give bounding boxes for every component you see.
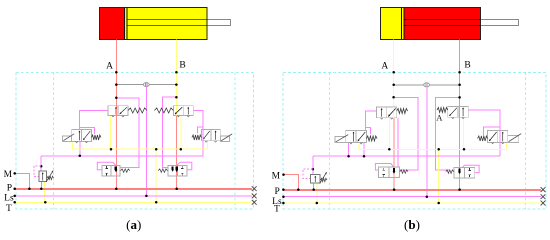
wire RVb dashed pilot loop (303, 169, 313, 178)
wire tank drop below V2a (180, 116, 182, 150)
wire pilot over V4b (499, 131, 501, 143)
junction P x RVa (a) (40, 187, 43, 190)
svg-text:P: P (7, 183, 12, 193)
wire A-line red over V5a (115, 166, 117, 177)
wire pilot B-node to valve V6a (a) (162, 97, 176, 167)
wire B-line through V2a (175, 106, 177, 116)
junction T x RVb drain (b) (316, 202, 319, 205)
manifold inner section divider (b) left (329, 72, 331, 209)
junction Ls x orifice drop (a) (145, 195, 148, 198)
plug P port (a) (252, 186, 257, 191)
junction P x M-jog (b) (297, 188, 300, 191)
cylinder CYL-a outline (100, 8, 208, 40)
wire pilot loop over V6a (177, 162, 192, 170)
node P (a) (13, 187, 16, 190)
wire gray bridge A-B (b) (394, 84, 460, 86)
wire tank header (b) (359, 148, 507, 150)
wire P rail (a) (15, 188, 252, 190)
valve V2a switched-path arrow (175, 107, 182, 114)
cylinder CYL-b piston rod (481, 20, 519, 26)
wire tank drop below V1b (388, 118, 390, 150)
plug Ls port (a) (252, 194, 257, 199)
wire B-line yellow (a) cylinder to valve V2a (175, 39, 177, 115)
node T (a) (13, 201, 16, 204)
valve V2a spring (154, 108, 173, 113)
valve V5b spring (400, 170, 408, 173)
wire V1b right-bottom to V5b top (397, 118, 399, 168)
junction pilot rail x V3b right (b) (363, 155, 366, 158)
node P (b) (282, 188, 285, 191)
valve V5a spring (121, 169, 130, 172)
cylinder CYL-a rod-side yellow fluid (125, 8, 207, 40)
valve V6a spring (158, 169, 167, 172)
valve RVb body (311, 175, 321, 184)
wire pilot branch to V4b spring (b) (483, 127, 500, 136)
manifold inner section divider (a) right (234, 72, 236, 209)
node Ls (b) (282, 195, 285, 198)
valve V5a body (102, 166, 120, 177)
wire tank drop V4b to tank header (506, 142, 508, 149)
wire RVa feed from P rail (40, 182, 42, 189)
wire A-line red over V5b (393, 167, 395, 177)
manifold inner section divider (b) right (525, 72, 527, 209)
wire pilot A-node to valve V5a (a) (116, 98, 139, 168)
wire tank drop V3b to tank header (358, 143, 360, 150)
svg-text:A: A (381, 61, 388, 71)
junction pilot rail x V3b left (b) (347, 155, 350, 158)
wire RVa drain to T rail (43, 182, 45, 203)
wire pilot branch to V3a spring (a) (80, 127, 95, 133)
cylinder CYL-a piston rod (207, 20, 231, 26)
junction A-line x bridge (b) (392, 84, 395, 87)
wire tank drop V3a to tank header (72, 141, 74, 149)
wire tank header (a) (73, 148, 208, 150)
wire pilot RVa up to pilot rail (40, 156, 42, 171)
valve V1a check arrowhead (115, 107, 117, 109)
svg-text:(b): (b) (404, 217, 420, 232)
wire tank drop V4a to tank header (207, 141, 209, 149)
valve V3a body (72, 130, 92, 142)
wire A-line through V1b (393, 107, 395, 118)
junction pilot rail x V3a (a) (79, 155, 82, 158)
wire A-line yellow (b) cylinder to valve V1b (393, 39, 395, 117)
wire pilot over V4a (202, 130, 204, 141)
valve RVb spring (321, 178, 328, 181)
junction B-line x bridge (a) (175, 83, 178, 86)
wire tank header drop to T rail (b) (438, 149, 440, 203)
orifice symbol (b) (424, 83, 430, 87)
junction B-line x boundary (b) (458, 71, 461, 74)
orifice symbol (a) (143, 83, 149, 87)
junction tank header x V2a drop (180, 148, 183, 151)
valve V1a spring (128, 108, 147, 113)
valve V2a body (173, 106, 193, 116)
wire pilot branch to V4a spring (198, 127, 203, 134)
wire B-line red over V6a (176, 166, 178, 177)
wire pilot V2a right down to Ls rail (a) (193, 110, 203, 155)
valve V5a bold seat (115, 167, 117, 171)
valve V6a bold seat (176, 167, 178, 171)
wire gray bridge A-B (a) (116, 84, 176, 86)
valve V2b body (448, 106, 469, 117)
junction B-line pilot tap (b) (458, 96, 461, 99)
wire V3a bottom to Ls rail (79, 141, 81, 155)
wire A-line red (b) valve V1b to P rail (393, 118, 395, 190)
valve V1b spring (397, 109, 408, 114)
wire pilot RVb up to pilot rail (312, 156, 314, 174)
wire pilot V1b left to V3b top (366, 111, 377, 131)
junction A-line pilot tap (b) (392, 96, 395, 99)
valve V6b spring (446, 170, 454, 173)
svg-text:P: P (275, 187, 280, 197)
wire B-line red (a) valve V2a to P rail (176, 116, 178, 189)
valve V3b spring (366, 136, 377, 141)
wire tank drop below V2b (463, 117, 465, 149)
svg-text:A: A (436, 113, 443, 123)
junction P x M-jog (a) (28, 187, 31, 190)
wire RVb drain to T rail (316, 183, 318, 203)
wire Ls rail (b) (283, 196, 541, 198)
valve V2b spring (437, 108, 448, 113)
cylinder CYL-a rod inside barrel (128, 19, 207, 21)
wire Ls sense drop from orifice (a) (145, 87, 147, 196)
svg-text:T: T (274, 205, 280, 215)
junction RVb pilot tap (312, 168, 315, 171)
junction A-line x bridge (a) (115, 83, 118, 86)
valve V3b body (346, 131, 367, 143)
junction tank header x V1a drop (110, 148, 113, 151)
wire T rail (a) (15, 201, 252, 203)
junction T x RVa drain (a) (44, 201, 47, 204)
junction T x header drop (a) (155, 201, 158, 204)
svg-text:M: M (272, 172, 281, 182)
wire pilot V2b right down across V4b to Ls rail (b) (468, 110, 500, 156)
wire RVb feed from P rail (313, 183, 315, 190)
wire pilot rail (a) (41, 155, 203, 157)
plug Ls port (b) (541, 194, 546, 199)
svg-text:(a): (a) (126, 217, 141, 232)
junction tank header x V1b drop (388, 148, 391, 151)
cylinder CYL-a cap-side red fluid (100, 8, 125, 40)
wire pilot B-node to valve V6b (b) (435, 97, 459, 170)
svg-text:B: B (179, 60, 185, 70)
node M (b) (282, 173, 285, 176)
valve V4b pilot operator (508, 136, 519, 143)
cylinder CYL-b rod inside barrel (405, 19, 481, 21)
junction B-line x boundary (a) (175, 71, 178, 74)
wire V3b bottom left to Ls rail (348, 143, 350, 157)
junction T x header drop (b) (437, 202, 440, 205)
junction P x RVb (b) (312, 188, 315, 191)
wire P rail (b) (283, 189, 541, 191)
valve RVa body (39, 171, 47, 182)
wire pilot A-node to valve V5b (b) (394, 97, 418, 170)
wire V4a bottom to Ls rail (202, 141, 204, 156)
junction A-line x boundary (b) (392, 71, 395, 74)
wire pilot loop over V5a (97, 162, 116, 170)
wire B-line red (b) cylinder to P rail (459, 40, 461, 190)
junction B-line pilot tap (a) (175, 96, 178, 99)
plug T port (a) (252, 200, 257, 205)
junction P x A-line (b) (393, 188, 396, 191)
wire B-line red over V6b (459, 168, 461, 178)
wire pilot V1a left to V3a top (80, 111, 109, 130)
valve V4a body (201, 130, 220, 141)
junction B-line x bridge (b) (458, 84, 461, 87)
valve V1a body (108, 106, 128, 116)
junction tank header x T drop (b) (437, 148, 440, 151)
wire V3b bottom right to Ls rail (363, 143, 365, 157)
valve V1b switched-path arrow (388, 108, 395, 116)
wire pilot branch to V3b spring (b) (366, 128, 371, 134)
svg-text:B: B (464, 60, 470, 70)
valve V3a pilot operator (63, 136, 72, 142)
junction A-line x boundary (a) (115, 71, 118, 74)
cylinder CYL-b outline (381, 8, 481, 40)
cylinder CYL-a piston (124, 8, 126, 40)
valve V3a spring (91, 135, 101, 140)
junction A-line pilot tap (a) (115, 97, 118, 100)
wire tank header drop to T rail (a) (155, 149, 157, 202)
wire pilot rail (b) (313, 155, 500, 157)
valve V6a body (168, 166, 187, 177)
valve V5b body (379, 167, 400, 177)
junction tank header x V2b drop (463, 148, 466, 151)
wire tank drop below V1a (110, 116, 112, 150)
valve V4b body (488, 131, 508, 143)
valve V4b spring (478, 136, 488, 141)
wire M line (a) (15, 173, 30, 188)
wire RVa dashed pilot loop (34, 166, 41, 176)
svg-text:Ls: Ls (4, 193, 14, 203)
svg-text:A: A (106, 61, 113, 71)
manifold inner section divider (a) left (53, 72, 55, 209)
node T (b) (282, 202, 285, 205)
manifold boundary block (b) (283, 72, 546, 209)
cylinder CYL-b piston (401, 8, 403, 40)
node Ls (a) (13, 195, 16, 198)
wire T rail (b) (283, 202, 541, 204)
valve V3b pilot operator (335, 137, 346, 143)
wire pilot loop over V6b (462, 165, 479, 172)
valve V6b body (454, 168, 475, 178)
valve RVa spring (47, 176, 54, 179)
cylinder CYL-b cap-side yellow fluid (381, 8, 404, 40)
wire M line (b) (284, 175, 299, 190)
junction RVa pilot tap (40, 165, 43, 168)
valve V4a spring (192, 135, 202, 140)
wire A-line red (a) cylinder to P rail (115, 39, 117, 188)
cylinder CYL-b rod-side red fluid (404, 8, 480, 40)
junction tank header x T drop (a) (155, 148, 158, 151)
valve V6b bold seat (459, 169, 461, 173)
junction P x B-line (b) (458, 188, 461, 191)
valve V1b body (377, 107, 397, 118)
wire A-line through V1a (115, 106, 117, 116)
node M (a) (13, 172, 16, 175)
wire B-line through V2b (459, 106, 461, 117)
wire Ls rail (a) (15, 195, 252, 197)
wire Ls sense drop from orifice (b) (426, 87, 428, 197)
junction Ls x orifice drop (b) (426, 195, 429, 198)
plug P port (b) (541, 187, 546, 192)
junction P x A-line (a) (115, 187, 118, 190)
manifold boundary block (a) (16, 72, 254, 209)
plug T port (b) (541, 201, 546, 206)
valve V5b bold seat (393, 168, 395, 172)
svg-text:M: M (4, 170, 13, 180)
svg-text:T: T (6, 204, 12, 214)
valve V4a pilot operator (220, 136, 229, 142)
wire pilot loop over V5b (375, 164, 393, 171)
junction P x B-line (a) (175, 187, 178, 190)
